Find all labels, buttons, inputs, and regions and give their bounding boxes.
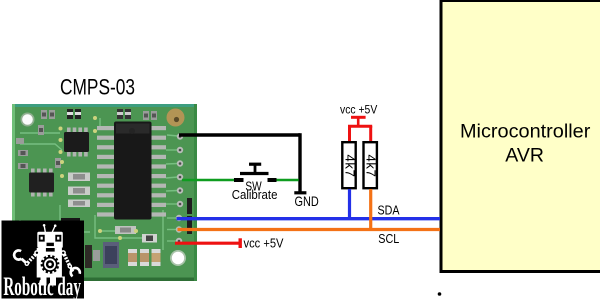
- svg-text:vcc +5V: vcc +5V: [244, 236, 284, 251]
- svg-text:GND: GND: [295, 194, 319, 209]
- svg-text:Robotic day: Robotic day: [3, 272, 81, 300]
- svg-text:vcc +5V: vcc +5V: [340, 104, 378, 117]
- svg-text:4k7: 4k7: [364, 154, 379, 177]
- svg-text:4k7: 4k7: [343, 154, 358, 177]
- svg-text:CMPS-03: CMPS-03: [60, 76, 135, 100]
- svg-text:AVR: AVR: [505, 146, 544, 167]
- svg-text:SDA: SDA: [378, 202, 400, 217]
- svg-text:SCL: SCL: [378, 231, 399, 246]
- svg-text:Microcontroller: Microcontroller: [460, 121, 591, 142]
- svg-text:Calibrate: Calibrate: [232, 187, 278, 202]
